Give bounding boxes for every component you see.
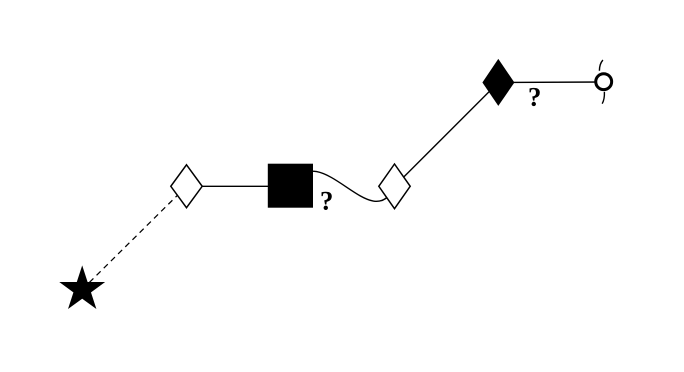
wire: dashed bond star to white diamond D1 xyxy=(82,186,186,289)
wire: wavy bond black square S1 to white diamond D2 xyxy=(291,171,395,201)
label: linkage ? for D3 xyxy=(530,88,540,106)
wire: bond white diamond D2 to black diamond D3 xyxy=(395,83,499,187)
node: white diamond D2 xyxy=(379,164,410,209)
reducing end upper arc xyxy=(599,60,603,71)
label: linkage ? for S1 xyxy=(322,192,332,210)
node: black star (filled pentagram) xyxy=(61,267,104,308)
node: white diamond D1 xyxy=(171,165,202,208)
node: black square S1 xyxy=(268,164,313,208)
wire: bond white diamond D1 to black square S1 xyxy=(187,185,291,187)
node: reducing end circle xyxy=(596,74,612,90)
wire: bond black diamond D3 to reducing-end circle xyxy=(498,81,603,84)
node: black diamond D3 xyxy=(482,59,514,106)
reducing end lower arc xyxy=(602,92,604,104)
